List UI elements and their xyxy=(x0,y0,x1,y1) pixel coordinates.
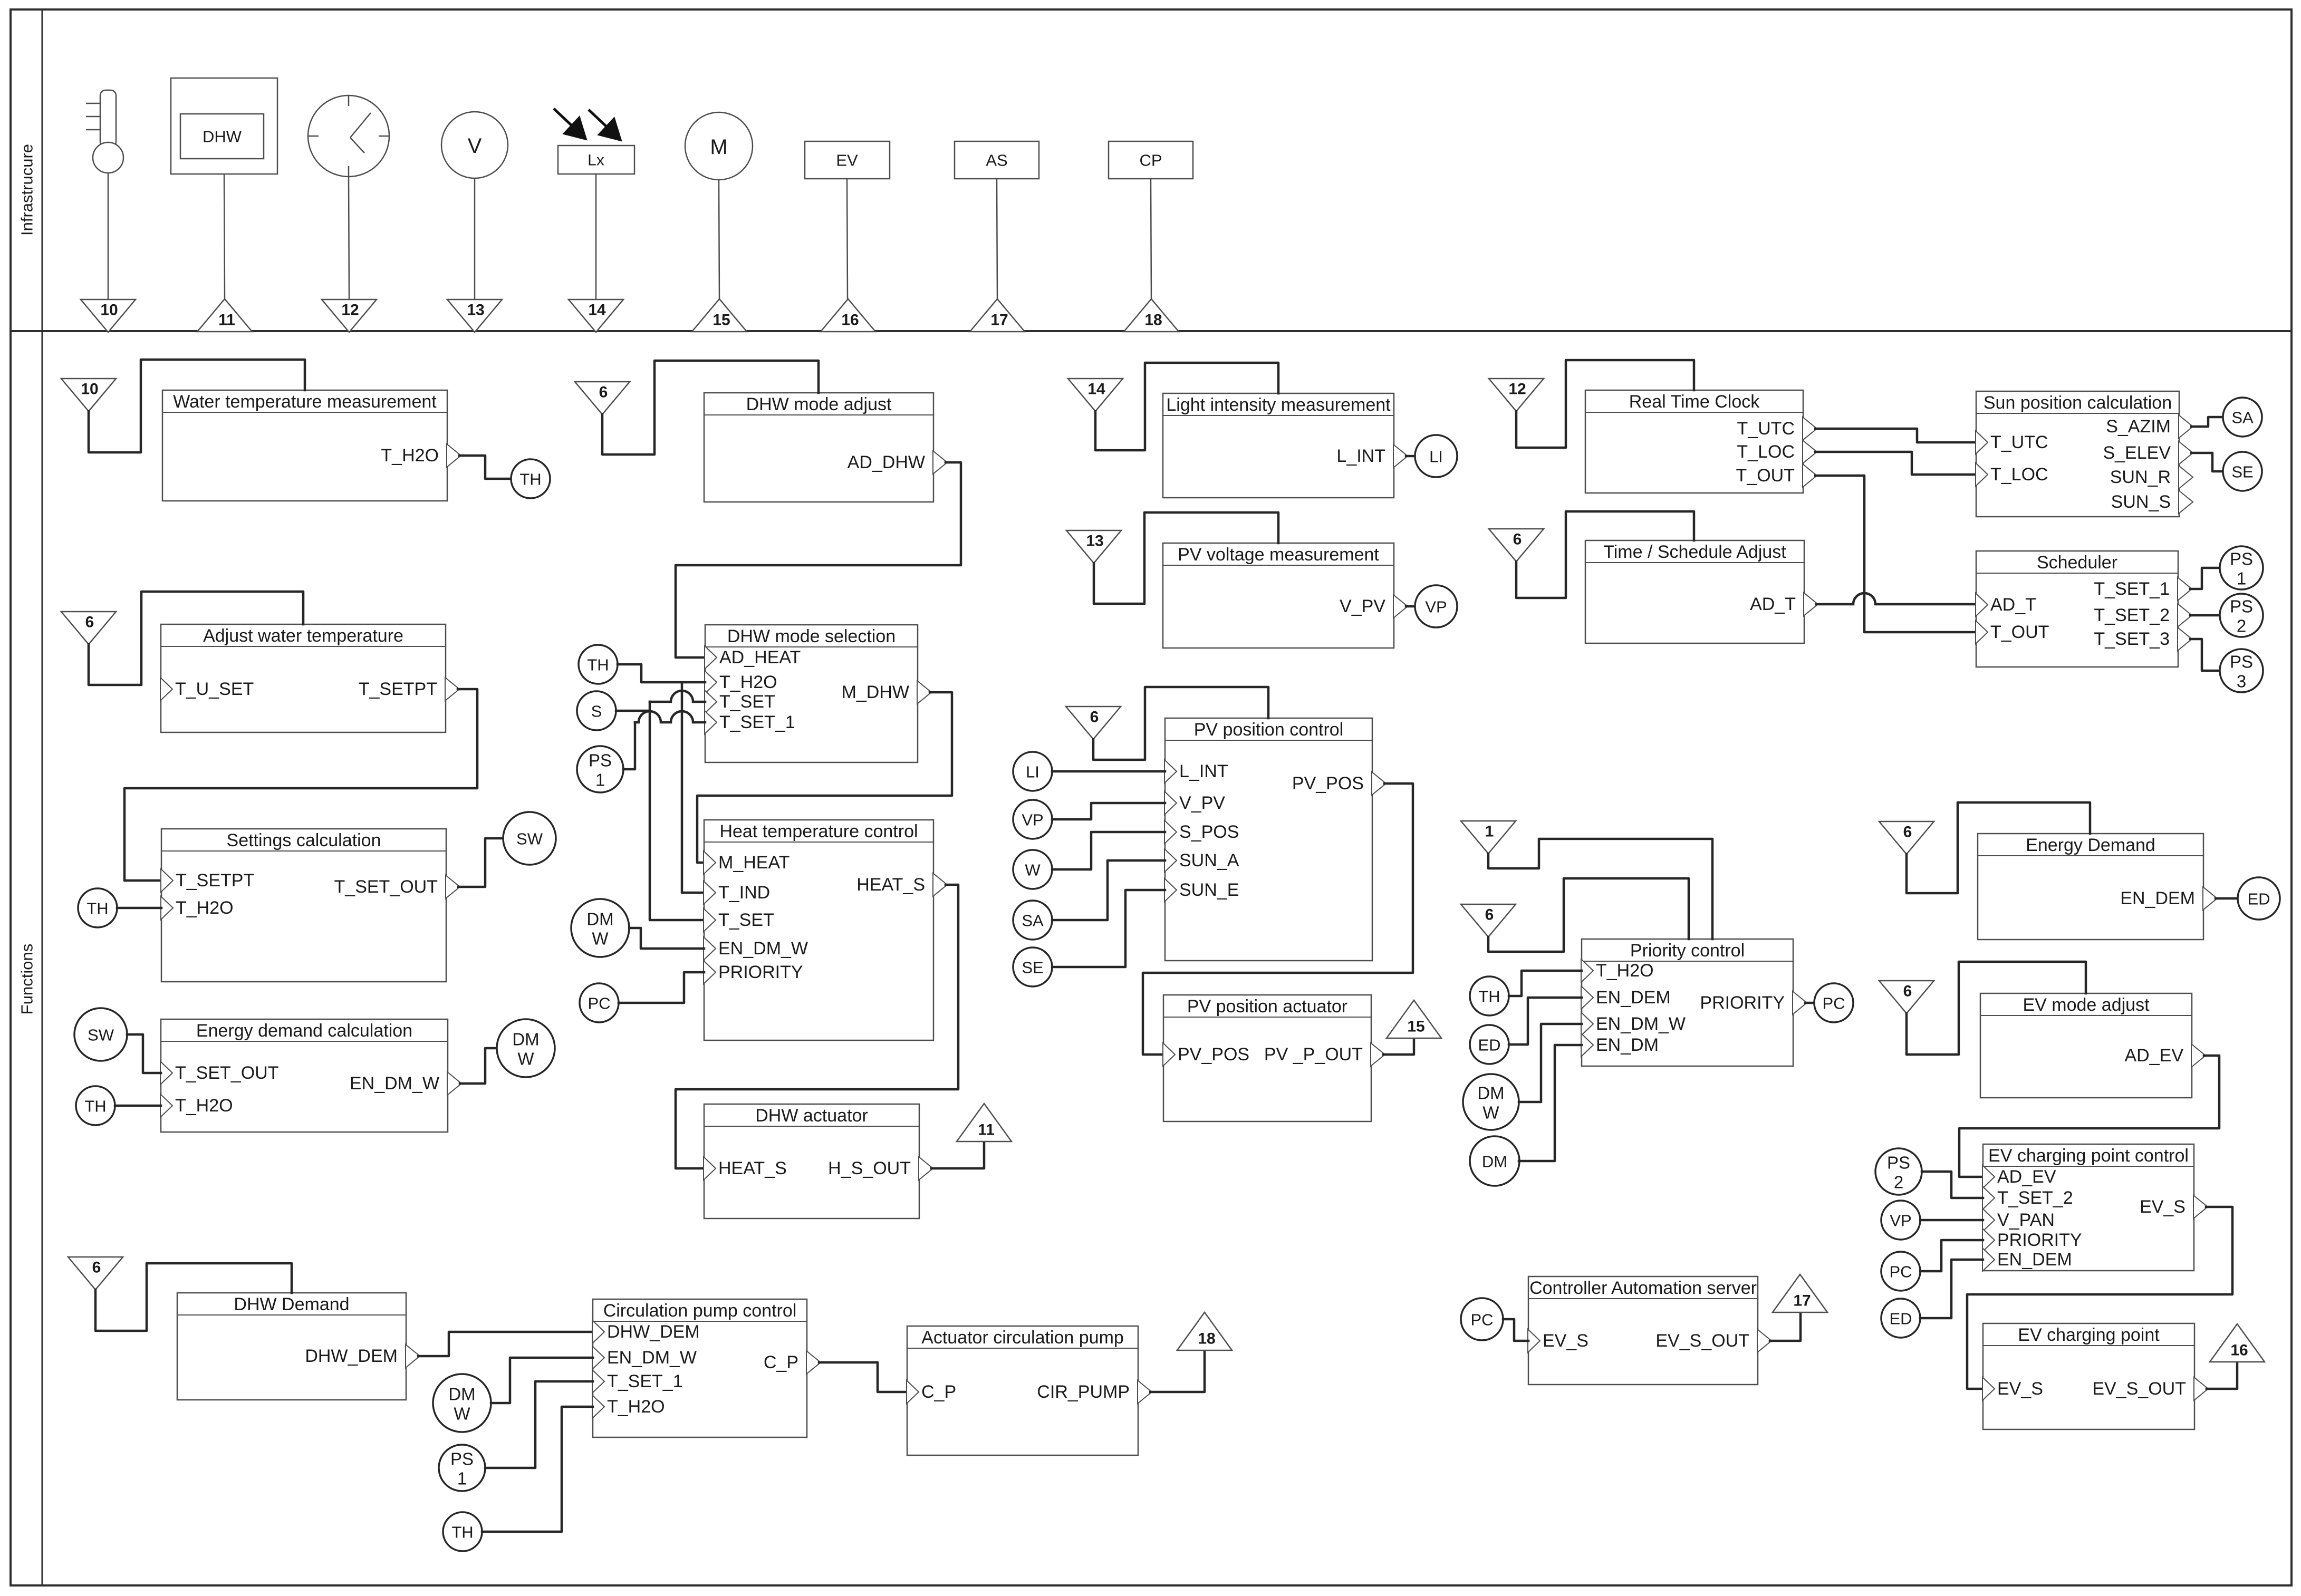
wire AD_DHW output to DHW mode selection AD_HEAT input xyxy=(676,462,961,657)
svg-text:T_SET_3: T_SET_3 xyxy=(2094,629,2170,649)
svg-text:AD_EV: AD_EV xyxy=(2125,1046,2184,1066)
wire AD_T output to Scheduler AD_T input (hop over T_OUT wire) xyxy=(1816,593,1976,604)
sink triangle 11 (functions) xyxy=(957,1104,1012,1142)
wire junction branch down to Heat temperature control T_SET xyxy=(650,711,704,920)
wire triangle 12 to Real Time Clock xyxy=(1516,360,1694,448)
block Circulation pump control xyxy=(593,1299,807,1437)
node PC (controller automation server) xyxy=(1461,1298,1503,1340)
svg-text:12: 12 xyxy=(341,302,359,319)
svg-text:TH: TH xyxy=(84,1097,106,1116)
svg-text:1: 1 xyxy=(2237,569,2246,588)
svg-text:T_SET: T_SET xyxy=(719,692,775,712)
svg-text:T_SET_1: T_SET_1 xyxy=(2094,579,2170,599)
svg-text:EN_DM_W: EN_DM_W xyxy=(350,1073,439,1094)
source triangle 6 (DHW mode adjust) xyxy=(575,382,630,414)
svg-text:EN_DM_W: EN_DM_W xyxy=(1596,1014,1686,1034)
wire triangle 1 to Priority control xyxy=(1488,839,1712,939)
svg-text:T_H2O: T_H2O xyxy=(175,1096,233,1116)
AS device icon (automation server) xyxy=(955,141,1039,179)
svg-text:M_DHW: M_DHW xyxy=(842,682,909,702)
svg-text:T_H2O: T_H2O xyxy=(176,898,234,918)
node SA (PV position control) xyxy=(1013,901,1052,940)
svg-text:S_POS: S_POS xyxy=(1179,822,1239,842)
svg-text:Energy demand calculation: Energy demand calculation xyxy=(196,1021,412,1041)
svg-text:SW: SW xyxy=(88,1026,114,1044)
svg-text:Water temperature measurement: Water temperature measurement xyxy=(173,392,437,412)
svg-text:17: 17 xyxy=(1793,1292,1811,1310)
svg-text:T_UTC: T_UTC xyxy=(1990,432,2048,452)
node VP xyxy=(1415,585,1457,627)
node W xyxy=(1013,850,1052,889)
svg-text:11: 11 xyxy=(978,1121,995,1139)
svg-text:6: 6 xyxy=(92,1259,101,1276)
svg-text:DHW: DHW xyxy=(203,128,242,146)
svg-text:DM: DM xyxy=(1482,1153,1507,1171)
svg-text:V_PV: V_PV xyxy=(1340,596,1385,616)
wire V_PV output to node VP xyxy=(1406,605,1417,608)
svg-text:C_P: C_P xyxy=(764,1352,798,1372)
svg-text:AD_HEAT: AD_HEAT xyxy=(719,647,801,668)
wire triangle 10 to Water temperature measurement xyxy=(89,360,305,452)
wire HEAT_S output loop to DHW actuator HEAT_S input xyxy=(676,885,958,1168)
source triangle 6 (adjust water temperature) xyxy=(61,612,116,644)
block Settings calculation xyxy=(161,829,446,982)
wire T_OUT output to Scheduler T_OUT input xyxy=(1815,476,1976,632)
svg-text:HEAT_S: HEAT_S xyxy=(856,875,925,895)
wire PC to PRIORITY input xyxy=(619,972,704,1003)
svg-text:EN_DEM: EN_DEM xyxy=(1997,1250,2072,1270)
svg-text:DM: DM xyxy=(586,910,613,929)
sink triangle 17 (top band) xyxy=(970,299,1025,332)
wire T_SET_2 output to node PS 2 xyxy=(2190,614,2219,617)
source triangle 10 (top band) xyxy=(81,299,136,332)
svg-text:SUN_A: SUN_A xyxy=(1179,850,1239,870)
svg-text:T_H2O: T_H2O xyxy=(719,672,777,692)
node ED (priority control) xyxy=(1470,1025,1509,1064)
svg-text:W: W xyxy=(454,1404,470,1424)
wire S to T_SET input (hop over crossing) xyxy=(616,702,650,711)
svg-text:PS: PS xyxy=(2230,597,2253,616)
svg-text:PV position control: PV position control xyxy=(1194,720,1344,740)
node DM W xyxy=(497,1019,555,1077)
svg-text:DHW_DEM: DHW_DEM xyxy=(305,1346,398,1366)
svg-text:PRIORITY: PRIORITY xyxy=(718,962,803,982)
wire S_AZIM output to node SA xyxy=(2191,417,2223,427)
svg-text:17: 17 xyxy=(990,312,1008,329)
svg-text:PV _P_OUT: PV _P_OUT xyxy=(1264,1044,1363,1065)
wire H_S_OUT output to sink triangle 11 xyxy=(931,1142,984,1168)
svg-text:15: 15 xyxy=(1407,1018,1424,1036)
svg-text:10: 10 xyxy=(81,381,98,398)
wire triangle 6 to DHW mode adjust xyxy=(602,361,819,454)
node S xyxy=(577,691,616,730)
block Water temperature measurement xyxy=(162,390,447,501)
svg-text:16: 16 xyxy=(2230,1342,2248,1359)
band divider between Infrastructure and Functions xyxy=(11,330,2292,332)
wire T_SET_1 output to node PS 1 xyxy=(2190,568,2219,589)
wire triangle 6 to Priority control xyxy=(1488,878,1689,952)
block Controller Automation server xyxy=(1528,1276,1758,1385)
source triangle 6 (DHW demand) xyxy=(68,1257,123,1290)
svg-text:DM: DM xyxy=(1477,1084,1504,1103)
sink triangle 18 (top band) xyxy=(1124,299,1179,332)
svg-text:DHW mode adjust: DHW mode adjust xyxy=(746,394,892,414)
block Energy demand calculation xyxy=(161,1019,448,1132)
source triangle 14 (top band) xyxy=(569,299,623,332)
wire L_INT output to node LI xyxy=(1406,455,1417,458)
svg-text:Settings calculation: Settings calculation xyxy=(227,830,381,850)
svg-text:PS: PS xyxy=(2230,549,2253,569)
source triangle 13 (functions) xyxy=(1066,530,1121,563)
svg-text:Energy Demand: Energy Demand xyxy=(2026,835,2155,855)
wire DM W to EN_DM_W input xyxy=(491,1358,593,1403)
node VP (EV charging point control) xyxy=(1881,1201,1920,1240)
wire EV_S output loop to EV charging point EV_S input xyxy=(1967,1207,2232,1389)
svg-text:T_SET_1: T_SET_1 xyxy=(719,712,795,732)
node DM W (priority control) xyxy=(1463,1074,1519,1130)
block PV position control xyxy=(1165,718,1372,961)
svg-text:CP: CP xyxy=(1139,151,1162,170)
svg-text:Infrastrucure: Infrastrucure xyxy=(18,144,36,236)
svg-text:T_H2O: T_H2O xyxy=(1596,961,1654,981)
source triangle 13 (top band) xyxy=(447,299,502,332)
block DHW actuator xyxy=(704,1104,919,1218)
svg-text:HEAT_S: HEAT_S xyxy=(718,1158,787,1178)
wire W to S_POS input xyxy=(1052,832,1165,869)
wire triangle 13 to PV voltage measurement xyxy=(1094,512,1278,604)
source triangle 1 xyxy=(1461,821,1516,854)
wire VP to V_PV input xyxy=(1052,803,1165,819)
wire PC to EV_S input xyxy=(1503,1319,1528,1341)
wire SE to SUN_E input xyxy=(1052,890,1165,967)
wire ED to EN_DEM input xyxy=(1920,1260,1983,1318)
wire PC to PRIORITY input xyxy=(1920,1240,1983,1271)
svg-text:AD_T: AD_T xyxy=(1990,595,2036,615)
svg-text:13: 13 xyxy=(467,302,484,319)
sink triangle 15 (top band) xyxy=(692,299,747,332)
svg-text:W: W xyxy=(1482,1103,1499,1123)
svg-text:15: 15 xyxy=(713,312,730,329)
svg-text:TH: TH xyxy=(587,656,609,674)
block PV voltage measurement xyxy=(1163,543,1394,648)
svg-text:T_LOC: T_LOC xyxy=(1737,442,1795,462)
svg-text:Real Time Clock: Real Time Clock xyxy=(1629,392,1760,412)
wire CP icon to sink triangle 18 xyxy=(1151,179,1151,299)
wire CIR_PUMP output to sink triangle 18 xyxy=(1150,1350,1205,1392)
svg-text:T_U_SET: T_U_SET xyxy=(175,679,254,699)
block Real Time Clock xyxy=(1585,390,1803,493)
svg-text:PS: PS xyxy=(2230,652,2253,672)
svg-text:T_H2O: T_H2O xyxy=(607,1397,665,1417)
node ED (EV charging point control) xyxy=(1881,1299,1920,1338)
wire EN_DM_W output to node DM W xyxy=(460,1048,497,1084)
svg-text:EV_S: EV_S xyxy=(2140,1197,2186,1217)
svg-text:C_P: C_P xyxy=(921,1382,956,1402)
svg-text:Circulation pump control: Circulation pump control xyxy=(603,1301,797,1321)
sink triangle 16 (top band) xyxy=(821,299,875,332)
svg-text:PV_POS: PV_POS xyxy=(1178,1044,1249,1065)
svg-text:LI: LI xyxy=(1429,448,1443,466)
svg-text:DHW actuator: DHW actuator xyxy=(755,1106,868,1126)
svg-text:T_SET_OUT: T_SET_OUT xyxy=(334,877,438,897)
source triangle 6 (PV position control) xyxy=(1066,707,1121,739)
block Actuator circulation pump xyxy=(907,1326,1138,1455)
wire PRIORITY output to node PC xyxy=(1805,1002,1815,1004)
svg-text:PRIORITY: PRIORITY xyxy=(1700,993,1785,1013)
svg-text:PRIORITY: PRIORITY xyxy=(1997,1230,2082,1250)
wire SA to SUN_A input xyxy=(1052,860,1165,920)
block DHW mode adjust xyxy=(704,393,933,502)
svg-text:AD_T: AD_T xyxy=(1750,594,1796,614)
svg-text:1: 1 xyxy=(595,770,605,790)
wire TH to T_H2O input xyxy=(115,1105,161,1107)
svg-text:EV_S_OUT: EV_S_OUT xyxy=(2092,1379,2186,1399)
node ED xyxy=(2238,877,2280,920)
svg-text:CIR_PUMP: CIR_PUMP xyxy=(1037,1382,1130,1402)
node TH (energy demand calc input) xyxy=(76,1086,115,1125)
node SW xyxy=(503,812,556,865)
node DM W (circulation pump control) xyxy=(433,1374,491,1432)
svg-text:H_S_OUT: H_S_OUT xyxy=(828,1158,911,1178)
wire EV_S_OUT output to sink triangle 16 xyxy=(2207,1362,2237,1389)
wire T_SET_OUT output to node SW xyxy=(458,838,503,887)
wire clock to source triangle 12 xyxy=(349,177,349,299)
wire PS 1 to T_SET_1 input xyxy=(485,1381,593,1468)
svg-text:2: 2 xyxy=(1894,1173,1903,1192)
svg-text:EV: EV xyxy=(836,151,858,170)
svg-text:PV_POS: PV_POS xyxy=(1292,773,1364,794)
svg-text:EN_DM: EN_DM xyxy=(1596,1035,1659,1055)
svg-text:T_SET: T_SET xyxy=(718,910,774,930)
svg-text:Time / Schedule Adjust: Time / Schedule Adjust xyxy=(1603,542,1786,562)
wire V sensor to source triangle 13 xyxy=(474,178,476,299)
node DM W (heat temperature control) xyxy=(571,899,629,957)
svg-text:SE: SE xyxy=(2231,463,2253,481)
block Time / Schedule Adjust xyxy=(1585,540,1804,643)
svg-text:V_PAN: V_PAN xyxy=(1997,1210,2055,1230)
source triangle 12 (functions) xyxy=(1489,379,1544,411)
svg-text:Sun position calculation: Sun position calculation xyxy=(1984,393,2172,413)
node DM xyxy=(1470,1136,1519,1186)
wire DHW icon to sink triangle 11 xyxy=(224,174,225,299)
svg-text:DHW mode selection: DHW mode selection xyxy=(727,626,896,646)
node SW (energy demand calc input) xyxy=(74,1008,127,1061)
wire PV_POS output loop to PV position actuator PV_POS input xyxy=(1143,784,1413,1055)
node PS 2 (scheduler) xyxy=(2220,594,2263,637)
svg-text:EV_S: EV_S xyxy=(1997,1379,2043,1399)
node PS 1 (circulation pump control) xyxy=(439,1445,485,1491)
svg-text:V_PV: V_PV xyxy=(1179,793,1225,813)
svg-text:DHW Demand: DHW Demand xyxy=(234,1294,349,1314)
svg-text:PV position actuator: PV position actuator xyxy=(1187,997,1347,1017)
svg-text:SUN_R: SUN_R xyxy=(2110,467,2171,487)
DHW device icon xyxy=(171,78,277,174)
svg-text:AD_DHW: AD_DHW xyxy=(848,452,925,472)
node LI xyxy=(1415,435,1457,477)
svg-text:S: S xyxy=(591,702,602,721)
svg-text:Scheduler: Scheduler xyxy=(2037,553,2117,573)
block DHW Demand xyxy=(177,1293,406,1400)
svg-text:18: 18 xyxy=(1144,312,1162,329)
svg-text:EN_DM_W: EN_DM_W xyxy=(607,1348,697,1368)
node SA xyxy=(2223,398,2262,437)
svg-text:T_SET_2: T_SET_2 xyxy=(2094,605,2170,625)
source triangle 6 (priority control) xyxy=(1461,904,1516,937)
svg-text:ED: ED xyxy=(2247,890,2270,908)
wire EV icon to sink triangle 16 xyxy=(847,179,848,299)
svg-text:2: 2 xyxy=(2237,616,2246,636)
svg-text:T_H2O: T_H2O xyxy=(381,446,439,466)
wire M motor to sink triangle 15 xyxy=(719,180,719,299)
svg-text:W: W xyxy=(1025,861,1041,879)
svg-text:VP: VP xyxy=(1890,1212,1911,1230)
thermometer sensor icon (temperature) xyxy=(86,90,123,173)
source triangle 6 (EV mode adjust) xyxy=(1879,981,1934,1013)
svg-text:ED: ED xyxy=(1478,1036,1500,1055)
wire EN_DEM output to node ED xyxy=(2216,897,2238,900)
wire DM to EN_DM input xyxy=(1519,1045,1582,1161)
svg-text:6: 6 xyxy=(1485,906,1494,924)
wire triangle 6 to Time / Schedule Adjust xyxy=(1516,511,1694,598)
svg-text:SA: SA xyxy=(1022,912,1044,930)
node TH (DHW mode selection) xyxy=(579,645,618,684)
wire triangle 6 to DHW Demand xyxy=(95,1263,292,1331)
svg-text:VP: VP xyxy=(1022,811,1043,829)
svg-text:14: 14 xyxy=(588,302,606,319)
svg-text:PC: PC xyxy=(1822,994,1845,1013)
svg-text:T_OUT: T_OUT xyxy=(1736,466,1795,486)
svg-text:T_SET_OUT: T_SET_OUT xyxy=(175,1063,278,1083)
svg-text:TH: TH xyxy=(86,899,108,918)
svg-text:EN_DM_W: EN_DM_W xyxy=(718,939,808,959)
wire ED to EN_DEM input xyxy=(1509,998,1582,1044)
wire triangle 6 to Energy Demand xyxy=(1907,802,2090,893)
block Priority control xyxy=(1582,939,1793,1066)
voltage sensor icon V xyxy=(441,112,508,178)
node PC (EV charging point control) xyxy=(1881,1252,1920,1291)
wire Lx sensor to source triangle 14 xyxy=(595,174,597,299)
svg-text:EV_S: EV_S xyxy=(1543,1331,1588,1351)
wire triangle 6 to EV mode adjust xyxy=(1907,962,2086,1055)
node SE xyxy=(2223,452,2262,491)
block Light intensity measurement xyxy=(1163,393,1394,498)
svg-text:EN_DEM: EN_DEM xyxy=(2120,888,2195,908)
node SE (PV position control) xyxy=(1013,947,1052,986)
svg-text:Priority control: Priority control xyxy=(1630,941,1745,961)
clock icon (real time) xyxy=(308,95,389,177)
svg-text:T_SETPT: T_SETPT xyxy=(359,679,437,699)
svg-text:DHW_DEM: DHW_DEM xyxy=(607,1322,700,1342)
svg-text:13: 13 xyxy=(1086,533,1103,550)
source triangle 10 (functions) xyxy=(61,379,116,411)
svg-text:TH: TH xyxy=(519,470,541,489)
svg-text:L_INT: L_INT xyxy=(1179,761,1228,781)
svg-text:SUN_E: SUN_E xyxy=(1179,880,1239,900)
sink triangle 15 (functions) xyxy=(1387,1000,1441,1038)
svg-text:ED: ED xyxy=(1889,1310,1912,1328)
wire AD_EV output loop to EV charging point control AD_EV input xyxy=(1959,1056,2219,1177)
svg-text:Lx: Lx xyxy=(588,152,604,169)
svg-text:6: 6 xyxy=(599,384,608,401)
wire triangle 14 to Light intensity measurement xyxy=(1095,363,1278,450)
wire triangle 6 to Adjust water temperature xyxy=(89,592,303,685)
wire M_DHW output loop to Heat temperature control M_HEAT xyxy=(697,692,952,863)
svg-text:VP: VP xyxy=(1425,598,1447,616)
svg-text:DM: DM xyxy=(512,1030,539,1049)
svg-text:PC: PC xyxy=(1470,1311,1493,1329)
svg-text:1: 1 xyxy=(457,1469,467,1488)
node VP (PV position control) xyxy=(1013,800,1052,839)
svg-text:11: 11 xyxy=(218,312,235,329)
svg-text:S_ELEV: S_ELEV xyxy=(2103,443,2171,463)
svg-text:LI: LI xyxy=(1026,763,1039,781)
svg-text:PS: PS xyxy=(589,751,612,770)
svg-text:AD_EV: AD_EV xyxy=(1997,1167,2056,1187)
wire DHW_DEM output to Circulation pump control DHW_DEM input xyxy=(418,1332,593,1356)
wire T_LOC output to Sun position calculation T_LOC input xyxy=(1815,452,1976,475)
source triangle 12 (top band) xyxy=(322,299,377,332)
wire PV_P_OUT output to sink triangle 15 xyxy=(1383,1038,1414,1055)
svg-text:PC: PC xyxy=(1889,1263,1912,1281)
svg-text:TH: TH xyxy=(1478,988,1500,1006)
svg-text:T_SET_1: T_SET_1 xyxy=(607,1371,683,1391)
svg-text:PS: PS xyxy=(1887,1153,1910,1173)
sink triangle 17 (functions) xyxy=(1773,1274,1827,1312)
svg-text:W: W xyxy=(517,1049,534,1069)
svg-text:DM: DM xyxy=(448,1385,475,1404)
svg-text:16: 16 xyxy=(841,312,859,329)
CP device icon (charging point) xyxy=(1109,141,1193,179)
svg-text:Actuator circulation pump: Actuator circulation pump xyxy=(921,1328,1124,1348)
svg-text:T_UTC: T_UTC xyxy=(1737,419,1795,439)
wire T_H2O output to node TH xyxy=(459,456,511,479)
sink triangle 11 (top band) xyxy=(197,299,252,332)
svg-text:6: 6 xyxy=(1090,709,1099,726)
svg-text:3: 3 xyxy=(2237,672,2246,691)
svg-text:EV charging point: EV charging point xyxy=(2018,1325,2160,1345)
node PC (priority output) xyxy=(1814,983,1853,1022)
svg-text:PV voltage measurement: PV voltage measurement xyxy=(1178,545,1379,565)
svg-text:EV charging point control: EV charging point control xyxy=(1988,1146,2189,1166)
block EV charging point control xyxy=(1983,1144,2194,1271)
svg-text:SE: SE xyxy=(1022,959,1043,977)
wire junction branch down to Heat temperature control T_IND xyxy=(682,682,704,893)
block Scheduler xyxy=(1976,551,2178,667)
block EV charging point xyxy=(1983,1323,2194,1429)
block Energy Demand xyxy=(1978,834,2203,940)
wire DM W to EN_DM_W input xyxy=(629,928,704,949)
svg-text:T_SET_2: T_SET_2 xyxy=(1997,1188,2073,1208)
svg-text:12: 12 xyxy=(1508,381,1526,398)
svg-text:6: 6 xyxy=(1903,983,1912,1000)
wire VP to V_PAN input xyxy=(1920,1219,1983,1222)
wire triangle 6 to PV position control xyxy=(1093,687,1268,760)
svg-text:SW: SW xyxy=(516,830,543,848)
svg-text:PC: PC xyxy=(588,994,610,1013)
node PS 1 (scheduler) xyxy=(2220,546,2263,589)
svg-text:Adjust water temperature: Adjust water temperature xyxy=(203,626,403,646)
svg-text:M_HEAT: M_HEAT xyxy=(718,853,790,873)
svg-text:T_OUT: T_OUT xyxy=(1990,622,2049,642)
svg-text:SUN_S: SUN_S xyxy=(2111,492,2171,512)
svg-text:L_INT: L_INT xyxy=(1336,446,1385,466)
node PS 3 (scheduler) xyxy=(2220,649,2263,692)
wire SW to T_SET_OUT input xyxy=(127,1034,161,1073)
wire TH to T_H2O input xyxy=(117,907,161,910)
node PC (heat temperature control) xyxy=(580,983,619,1022)
svg-text:Light intensity measurement: Light intensity measurement xyxy=(1166,395,1391,415)
block EV mode adjust xyxy=(1980,993,2192,1098)
